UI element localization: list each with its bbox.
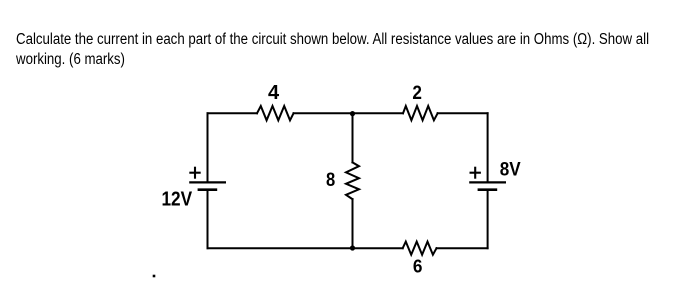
stray period mark <box>153 275 156 278</box>
wire bottom-right segment <box>437 247 488 249</box>
resistor R2 2-ohm <box>403 106 438 120</box>
wire middle upper <box>352 113 354 162</box>
battery V2 8V long plate <box>469 181 506 183</box>
wire middle lower <box>352 199 354 248</box>
plus sign of V2 <box>470 167 481 179</box>
wire right lower <box>487 190 489 249</box>
node A top junction <box>350 111 355 116</box>
svg-text:2: 2 <box>412 81 422 103</box>
wire left lower <box>207 190 209 249</box>
wire top-right segment <box>438 112 488 114</box>
battery V2 8V short plate <box>478 188 498 191</box>
battery V1 12V short plate <box>198 188 218 191</box>
resistor R3 8-ohm <box>346 162 359 199</box>
wire top-middle segment <box>294 112 404 114</box>
resistor R4 6-ohm <box>403 242 437 255</box>
node B bottom junction <box>350 245 355 250</box>
svg-text:8V: 8V <box>500 158 521 179</box>
svg-text:6: 6 <box>413 256 423 277</box>
wire top-left segment <box>208 112 258 114</box>
question text line 2 <box>16 51 670 70</box>
question text line 1 <box>16 31 670 50</box>
wire left upper <box>207 113 209 181</box>
svg-text:8: 8 <box>326 169 335 191</box>
svg-text:12V: 12V <box>161 187 192 210</box>
battery V1 12V long plate <box>189 181 226 183</box>
wire bottom-left segment <box>208 247 403 249</box>
plus sign of V1 <box>189 167 200 179</box>
resistor R1 4-ohm <box>257 106 294 120</box>
svg-text:4: 4 <box>268 82 280 104</box>
wire right upper <box>487 113 489 181</box>
